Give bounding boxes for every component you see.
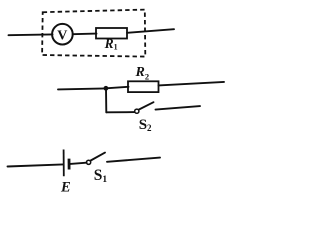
wire battery to switch S1 bbox=[70, 163, 86, 164]
wire drop to switch S2 bbox=[106, 111, 134, 113]
wire R1 to right end bbox=[127, 29, 174, 33]
resistor R2 bbox=[128, 81, 159, 92]
wire voltmeter to R1 bbox=[73, 33, 97, 36]
dashed enclosure box around voltmeter and R1 bbox=[42, 10, 145, 57]
wire junction vertical drop bbox=[105, 88, 107, 112]
svg-text:S2: S2 bbox=[139, 117, 152, 133]
switch S1 blade bbox=[91, 153, 105, 161]
svg-text:E: E bbox=[60, 180, 71, 194]
wire R2 to right end bbox=[159, 82, 225, 86]
wire S1 to right end bbox=[107, 158, 160, 162]
svg-text:R2: R2 bbox=[135, 65, 150, 81]
svg-text:V: V bbox=[57, 28, 67, 43]
wire S2 to right end bbox=[156, 106, 201, 110]
battery long plate bbox=[63, 150, 65, 177]
resistor R1 bbox=[96, 28, 127, 39]
wire junction to R2 bbox=[106, 87, 129, 89]
wire bottom-left lead bbox=[8, 164, 64, 166]
wire top-left lead bbox=[9, 33, 53, 36]
wire middle-left lead bbox=[58, 88, 106, 89]
svg-text:S1: S1 bbox=[94, 167, 108, 185]
switch S1 pivot circle bbox=[87, 160, 91, 164]
switch S2 pivot circle bbox=[135, 109, 139, 113]
battery short plate bbox=[68, 159, 71, 170]
node junction dot bbox=[104, 86, 109, 91]
switch S2 blade bbox=[139, 102, 154, 109]
voltmeter U1 circle bbox=[52, 24, 73, 45]
